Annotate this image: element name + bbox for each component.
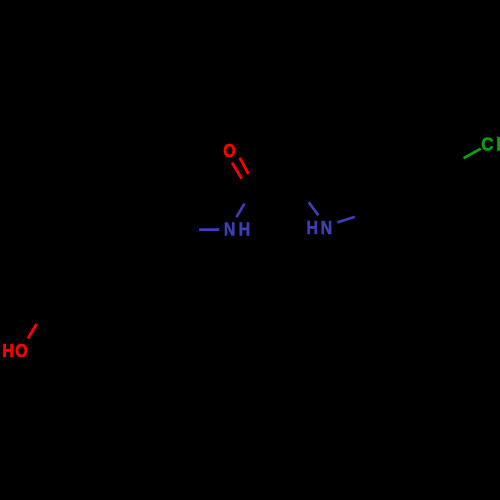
C=O double bond (oxygen half, line 2) — [240, 158, 249, 174]
svg-text:N: N — [321, 217, 333, 239]
bond C5 to Cl (chlorine half) — [464, 149, 481, 159]
svg-text:O: O — [223, 140, 235, 162]
svg-text:O: O — [15, 340, 27, 362]
bond CH2 to amide N (nitrogen half) — [199, 228, 219, 231]
bond amide N to carbonyl C (nitrogen half) — [236, 204, 244, 218]
svg-text:H: H — [239, 218, 251, 240]
bond indole N1 to C2 (nitrogen half) — [309, 202, 319, 215]
svg-text:H: H — [2, 340, 14, 362]
svg-text:l: l — [496, 134, 500, 155]
svg-text:H: H — [307, 217, 319, 239]
bond indole N1 to C7a (nitrogen half) — [337, 217, 354, 223]
svg-text:C: C — [481, 134, 493, 155]
svg-text:N: N — [224, 218, 236, 240]
C=O double bond (oxygen half, line 1) — [232, 163, 242, 179]
bond phenol O to ring C (oxygen half) — [28, 324, 37, 339]
